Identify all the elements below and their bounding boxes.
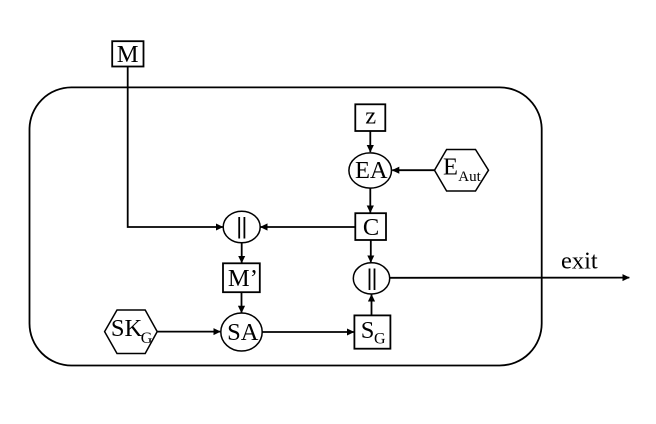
wire M' to SA (241, 292, 243, 313)
box M' (223, 263, 260, 292)
svg-text:G: G (141, 330, 153, 347)
wire EAut to EA (392, 169, 434, 171)
svg-text:M’: M’ (228, 265, 258, 292)
enclosure rounded rectangle (30, 87, 542, 365)
svg-text:exit: exit (561, 248, 598, 275)
svg-text:EA: EA (355, 157, 388, 184)
box z (355, 103, 385, 131)
svg-text:z: z (365, 103, 376, 130)
op concat2 circle (353, 263, 389, 294)
op EA circle (349, 153, 392, 188)
svg-text:C: C (363, 214, 379, 241)
wire EA to C (369, 188, 371, 212)
box M (112, 41, 143, 68)
box SG (354, 315, 390, 348)
wire SG to concat2 (371, 295, 373, 316)
wire concat2 to exit (390, 277, 630, 279)
hexagon EAut (435, 150, 489, 192)
wire SKG to SA (157, 331, 220, 333)
svg-text:SA: SA (227, 319, 259, 346)
wire C to concat1 (261, 226, 356, 228)
svg-text:M: M (117, 41, 139, 68)
svg-text:SK: SK (111, 315, 143, 342)
wire concat1 to M' (241, 243, 243, 263)
op concat1 circle (223, 211, 260, 243)
hexagon SKG (105, 310, 158, 354)
wire z to EA (369, 131, 371, 152)
wire SA to SG (262, 331, 354, 333)
wire C to concat2 (370, 240, 372, 262)
svg-text:S: S (361, 317, 375, 344)
box C (355, 213, 386, 241)
wire M to concat1 (128, 67, 223, 227)
svg-text:G: G (374, 331, 386, 348)
svg-text:Aut: Aut (458, 169, 481, 185)
op SA circle (221, 313, 262, 351)
svg-text:E: E (443, 154, 458, 181)
